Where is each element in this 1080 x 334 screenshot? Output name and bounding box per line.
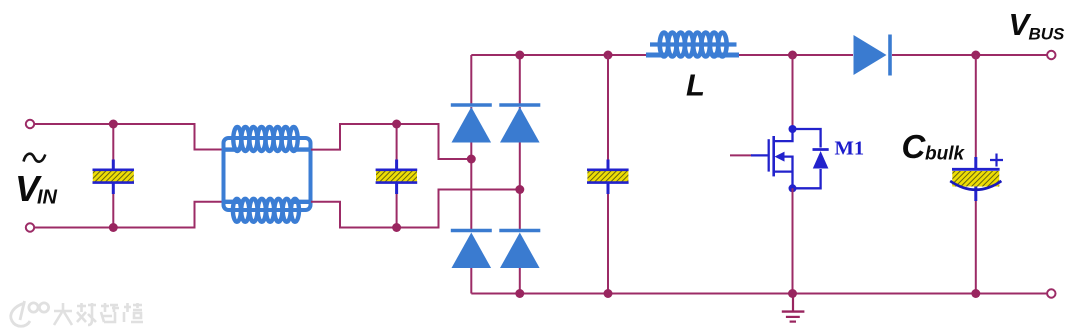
terminal output bottom bbox=[1047, 289, 1055, 297]
watermark text bbox=[54, 303, 143, 325]
capacitor C1 bbox=[93, 160, 135, 195]
node Cbulk top bbox=[971, 51, 980, 60]
wire cap C2 branch bbox=[396, 124, 398, 228]
wire top bus rail bbox=[471, 54, 647, 56]
svg-text:IN: IN bbox=[37, 187, 58, 209]
node C1 bottom bbox=[109, 223, 118, 232]
node C2 top bbox=[392, 120, 401, 129]
diode D4 (bridge bottom-right) bbox=[499, 231, 540, 269]
plus sign Cbulk bbox=[990, 154, 1003, 167]
wire diode to VBUS bbox=[892, 54, 1047, 56]
choke top winding bbox=[224, 127, 311, 151]
svg-text:bulk: bulk bbox=[925, 144, 965, 165]
wire Cbulk branch bbox=[975, 55, 977, 294]
node rail C3 bbox=[604, 289, 613, 298]
inductor L bbox=[646, 33, 739, 57]
wire bottom-left rail bbox=[35, 202, 223, 228]
ground bbox=[782, 294, 805, 322]
node bridge right mid bbox=[515, 185, 524, 194]
wire cap C3 branch bbox=[607, 55, 609, 294]
node rail bridge right bbox=[515, 289, 524, 298]
wire top-left rail bbox=[35, 124, 223, 150]
node MOSFET drain branch bbox=[788, 51, 797, 60]
common-mode choke T1 body bbox=[224, 138, 311, 210]
capacitor C2 bbox=[376, 160, 418, 195]
node bridge right top bbox=[515, 51, 524, 60]
terminal VBUS bbox=[1047, 51, 1055, 59]
svg-text:L: L bbox=[686, 68, 705, 103]
node bridge left mid bbox=[467, 155, 476, 164]
transistor M1 bbox=[751, 129, 793, 188]
wire bottom ground rail bbox=[471, 293, 1047, 295]
node C3 top bbox=[604, 51, 613, 60]
M1 body diode bbox=[793, 129, 829, 188]
node M1 drain bbox=[789, 125, 797, 133]
node C1 top bbox=[109, 120, 118, 129]
diode D2 (bridge top-right) bbox=[499, 105, 540, 143]
AC tilde symbol bbox=[24, 154, 46, 162]
wire bridge right column bbox=[519, 55, 521, 294]
terminal input top bbox=[26, 120, 34, 128]
wire MOSFET source to ground rail bbox=[792, 188, 794, 293]
node rail Cbulk bbox=[971, 289, 980, 298]
wire L to boost diode bbox=[739, 54, 853, 56]
wire MOSFET drain bbox=[792, 55, 794, 126]
watermark logo bbox=[11, 301, 49, 326]
wire bridge left column bbox=[470, 55, 472, 294]
wire cap C1 branch bbox=[112, 124, 114, 228]
wire MOSFET gate lead bbox=[730, 154, 752, 156]
node C2 bottom bbox=[392, 223, 401, 232]
svg-text:C: C bbox=[902, 128, 927, 165]
svg-text:M1: M1 bbox=[835, 138, 865, 160]
wire choke bottom to mid rails bbox=[311, 190, 518, 228]
terminal input bottom bbox=[26, 223, 34, 231]
diode D3 (bridge bottom-left) bbox=[451, 231, 492, 269]
diode D5 (boost) bbox=[854, 35, 891, 76]
node M1 source bbox=[789, 184, 797, 192]
wire choke to mid rails bbox=[311, 124, 469, 159]
capacitor C3 bbox=[587, 160, 629, 195]
node rail M1 bbox=[788, 289, 797, 298]
capacitor Cbulk bbox=[950, 157, 1001, 201]
diode D1 (bridge top-left) bbox=[451, 105, 492, 143]
choke bottom winding bbox=[224, 199, 311, 222]
M1 body arrow bbox=[775, 152, 785, 162]
svg-text:BUS: BUS bbox=[1029, 25, 1066, 44]
